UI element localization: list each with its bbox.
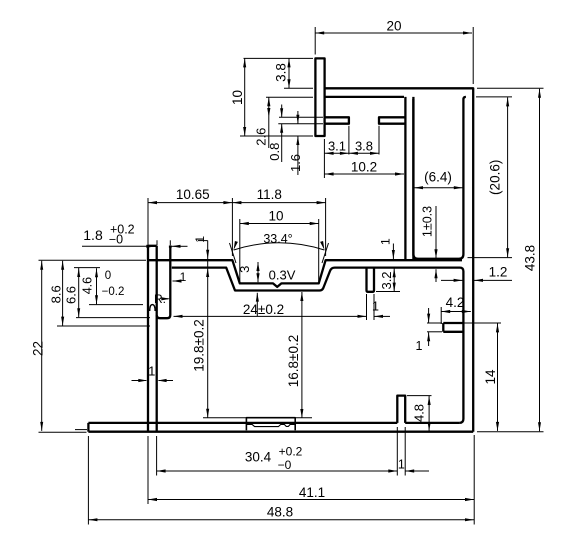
extension line right wall / 20 right — [472, 27, 474, 84]
svg-text:1: 1 — [148, 364, 155, 379]
svg-text:1: 1 — [180, 270, 187, 284]
svg-text:1.8: 1.8 — [83, 227, 103, 243]
dimension 41.1 line — [148, 499, 474, 501]
svg-text:3.8: 3.8 — [355, 138, 373, 153]
dimension 14 line — [497, 323, 499, 431]
dimension 1 channel web arrow — [392, 244, 394, 260]
dimension 20 line — [315, 32, 472, 34]
svg-text:3.2: 3.2 — [379, 271, 394, 289]
svg-text:10: 10 — [268, 208, 283, 223]
svg-text:1: 1 — [379, 238, 393, 245]
extension line J bottom left — [76, 317, 150, 319]
svg-text:1: 1 — [372, 300, 379, 314]
extension line shelf top left — [427, 322, 442, 324]
dimension 30.4 line — [157, 470, 398, 472]
dimension 1 rib arrows — [374, 315, 390, 317]
short extension at foot — [75, 429, 87, 431]
svg-text:+0.2: +0.2 — [279, 445, 303, 459]
extension line groove top-left up — [231, 198, 233, 256]
bottom wall inner surface (left part incl. foot) — [88, 422, 397, 424]
extension line slot bottom right — [468, 257, 513, 259]
svg-text:10: 10 — [230, 90, 245, 105]
svg-text:33.4°: 33.4° — [263, 232, 292, 246]
svg-text:8.6: 8.6 — [49, 285, 64, 303]
2.6 stem extension — [268, 117, 270, 148]
svg-text:3: 3 — [237, 266, 252, 273]
extension line bottom outer left — [39, 431, 87, 433]
dimension 1.2 arrows — [441, 279, 463, 281]
svg-text:30.4: 30.4 — [245, 450, 272, 465]
svg-text:19.8±0.2: 19.8±0.2 — [192, 319, 207, 371]
left outer wall rising to ridge top with cap — [148, 246, 157, 432]
svg-text:4.2: 4.2 — [446, 295, 465, 310]
svg-text:43.8: 43.8 — [523, 245, 538, 271]
dimension 1±0.3 arrows — [435, 206, 437, 258]
dimension 4.8 line — [428, 396, 430, 431]
leader elbow for deck thickness callout — [198, 240, 208, 242]
extension line deck bottom left — [74, 267, 100, 269]
dimension 10 groove line — [240, 223, 319, 225]
extension line tab bottom short — [290, 135, 313, 137]
extension ridge left up — [156, 240, 158, 245]
svg-text:10.65: 10.65 — [176, 187, 210, 202]
extension line left wall inner down — [156, 436, 158, 476]
extension line tab top — [244, 57, 314, 59]
dimension (6.4) line — [414, 187, 463, 189]
svg-text:22: 22 — [30, 341, 45, 356]
extension line top surface right — [477, 87, 544, 89]
top wall inner (ceiling of top channel) — [325, 96, 404, 98]
right fin in top channel — [379, 117, 405, 123]
extension line top wall inner (left of tab) — [266, 96, 313, 98]
wavy seam line inside pad — [246, 424, 295, 426]
dimension 33.4 degree arc — [234, 243, 325, 250]
svg-text:0.8: 0.8 — [267, 143, 282, 161]
extension line 8.6 lower reference — [57, 325, 150, 327]
dimension 0.8 arrows — [281, 105, 283, 118]
extension ridge right up — [169, 240, 171, 245]
dimension 16.8±0.2 line — [301, 292, 303, 418]
extension line rib right down — [373, 294, 375, 320]
svg-text:3.1: 3.1 — [328, 138, 346, 153]
left fin in top channel (3.1 wide) — [325, 117, 349, 123]
dimension 22 line — [41, 261, 43, 431]
svg-text:1: 1 — [416, 339, 423, 353]
dimension 1.8 arrows — [82, 245, 155, 247]
svg-text:−0: −0 — [278, 458, 292, 472]
extension line deck top left — [39, 259, 147, 261]
profile top tab (hook), 10 tall x 1.2 wide — [315, 58, 324, 136]
svg-text:16.8±0.2: 16.8±0.2 — [286, 335, 301, 387]
dimension 10.65 line — [148, 202, 232, 204]
svg-text:1.2: 1.2 — [489, 265, 508, 280]
extension line groove bottom-left up — [239, 219, 241, 281]
raised pad detail on bottom wall — [246, 418, 295, 431]
extension line groove bottom-right up — [318, 219, 320, 281]
dimension 10.2 line — [325, 173, 404, 175]
extension line left wall outer down — [147, 436, 149, 504]
dimension 8.6 line — [62, 261, 64, 326]
dimension 6.6 line — [78, 268, 80, 317]
extension line right wall outer down — [473, 435, 475, 525]
extension line foot tip down — [87, 436, 89, 525]
dimension 3.1 line — [325, 152, 349, 154]
extension line left wall top up — [147, 198, 149, 256]
extension line rib bottom right — [376, 291, 400, 293]
svg-text:1: 1 — [193, 236, 207, 243]
dimension 43.8 line — [539, 89, 541, 432]
dimension 1 shelf arrows — [428, 308, 430, 323]
extension line groove top-right up — [325, 198, 327, 256]
extension line shelf left end up — [440, 307, 442, 324]
dimension (20.6) line — [507, 97, 509, 257]
extension line fin top (left of tab) — [279, 116, 323, 118]
dimension 10 (tab) line — [244, 58, 246, 136]
svg-text:14: 14 — [483, 369, 498, 385]
dimension 11.8 line — [232, 202, 325, 204]
dimension 1.6 arrows — [297, 111, 299, 124]
svg-text:−0.2: −0.2 — [102, 286, 125, 298]
svg-text:1: 1 — [398, 458, 405, 472]
deck top surface with trapezoidal groove and 0.3 V-notch — [148, 260, 462, 287]
dimension 19.8±0.2 line — [207, 241, 209, 418]
extension line top surface (left of tab) — [284, 87, 313, 89]
profile top surface and right outer wall down to bottom — [325, 88, 474, 431]
extension line pad top right — [294, 417, 312, 419]
dimension 24±0.2 line — [174, 315, 367, 317]
dimension 4.2 line — [441, 311, 471, 313]
extension line right fin start — [378, 126, 380, 155]
extension line bottom surface right — [477, 431, 544, 433]
channel/slot divider wall left surface — [404, 97, 406, 259]
svg-text:6.6: 6.6 — [64, 286, 79, 304]
svg-text:24±0.2: 24±0.2 — [243, 302, 284, 317]
6.4mm slot outline with rounded bottom corners — [413, 97, 466, 259]
extension line shelf top right — [461, 322, 501, 324]
extension line bottom rib left down — [396, 427, 398, 476]
dimension 24±0.2 leader from groove bottom — [256, 293, 258, 317]
dimension 3.8 (fin gap) line — [349, 152, 379, 154]
groove right slant extended above deck — [322, 243, 329, 263]
dimension 48.8 line — [88, 519, 474, 521]
dimension 2.6 line — [268, 97, 270, 117]
extension line below tab for 3.1/10.2 — [323, 139, 325, 178]
extension line shelf bottom left — [427, 331, 442, 333]
dimension 3.8 (tab height) line — [288, 58, 290, 88]
dimension 1 slot leg arrow — [173, 280, 182, 282]
svg-text:41.1: 41.1 — [299, 485, 325, 500]
svg-text:0.3V: 0.3V — [269, 267, 296, 282]
svg-text:(6.4): (6.4) — [424, 170, 452, 185]
extension line arc apex left — [89, 304, 143, 306]
extension line tab left / 20 left — [314, 27, 316, 55]
extension line bottom rib right down — [404, 427, 406, 476]
shelf flange on lower right wall — [443, 323, 463, 332]
channel/slot divider wall right surface — [412, 99, 414, 259]
bottom wall outer surface — [88, 431, 473, 433]
dimension 3.2 arrows — [393, 268, 395, 291]
dimension 1 left wall arrows — [132, 380, 147, 382]
extension line fin bottom (left of tab) — [278, 123, 323, 125]
svg-text:3.8: 3.8 — [274, 63, 289, 82]
small radius detail between wall lines — [150, 305, 155, 311]
dimension 4.6 line — [96, 268, 98, 304]
radius leader arrow — [166, 298, 169, 300]
extension line rib left down — [366, 294, 368, 320]
extension line left fin end — [348, 126, 350, 155]
extension line bottom rib top right — [407, 395, 432, 397]
bottom wall inner surface (right part) — [405, 422, 459, 424]
dimension 1 bottom rib arrows — [405, 470, 429, 472]
svg-text:4.8: 4.8 — [412, 404, 427, 422]
svg-text:4.6: 4.6 — [81, 277, 95, 294]
left foot tip — [87, 423, 89, 432]
groove left slant extended above deck — [230, 243, 237, 263]
extension line tab bottom — [240, 135, 312, 137]
extension line pad top left — [203, 417, 246, 419]
deck bottom surface, groove outer contour, lower right wall inner surface — [172, 268, 464, 423]
svg-text:20: 20 — [386, 19, 401, 34]
svg-text:0: 0 — [105, 270, 111, 282]
svg-text:1.6: 1.6 — [288, 154, 303, 172]
dimension 3 groove depth line — [257, 262, 259, 282]
svg-text:10.2: 10.2 — [351, 159, 377, 174]
slot left wall / left wall inner, ridge top to bottom — [156, 246, 158, 431]
svg-text:(20.6): (20.6) — [488, 160, 503, 195]
extension line slot top right — [476, 96, 512, 98]
svg-text:1±0.3: 1±0.3 — [421, 206, 435, 237]
svg-text:11.8: 11.8 — [257, 187, 282, 202]
slot right wall upstand and closed J bottom — [157, 247, 172, 319]
svg-text:48.8: 48.8 — [267, 505, 293, 520]
svg-text:−0: −0 — [109, 233, 123, 247]
rib below deck, 3.2 deep — [367, 268, 375, 292]
bottom rib, 4.8 tall — [397, 396, 405, 423]
